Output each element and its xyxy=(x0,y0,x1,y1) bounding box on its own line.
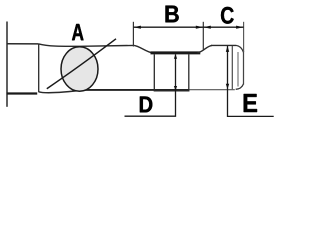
right body top edge xyxy=(211,44,236,46)
D dimension line with leader xyxy=(125,55,176,117)
taper bottom edge xyxy=(39,90,85,93)
B/C shared extension line xyxy=(202,22,204,50)
right end cap inner contour 1 xyxy=(231,46,233,89)
label C xyxy=(221,7,234,24)
right end cap outer face xyxy=(236,45,243,52)
B left extension line xyxy=(132,22,134,47)
slot bottom edge xyxy=(154,90,189,92)
saddle left dip xyxy=(134,45,153,53)
slot right vertical xyxy=(188,54,190,91)
E dimension line with leader xyxy=(228,46,274,117)
right end cap outer face vertical xyxy=(243,51,245,85)
label E xyxy=(244,94,257,112)
label B xyxy=(165,6,178,23)
taper top edge xyxy=(39,44,134,46)
left stub bottom edge xyxy=(7,92,38,94)
boss ellipse A xyxy=(61,47,98,91)
D down arrow xyxy=(174,86,177,91)
left stub right edge xyxy=(38,44,40,92)
D up arrow xyxy=(174,54,177,59)
B right arrow xyxy=(196,26,204,29)
right end cap inner contour 2 xyxy=(237,52,239,87)
C left arrow xyxy=(203,26,211,29)
E down arrow xyxy=(226,84,229,90)
B left arrow xyxy=(133,26,141,29)
right end cap bottom corner xyxy=(236,84,244,90)
E up arrow xyxy=(226,46,229,52)
B C dimension line xyxy=(133,26,243,28)
C right arrow xyxy=(236,26,244,29)
body bottom edge xyxy=(84,89,189,91)
body bottom edge right thin xyxy=(189,89,235,91)
label A xyxy=(72,24,84,40)
saddle right rise xyxy=(198,45,213,52)
left stub top edge xyxy=(7,43,39,45)
slot left vertical xyxy=(153,54,155,91)
slash through boss xyxy=(47,39,116,89)
saddle flat band xyxy=(151,51,201,54)
left stub left vertical xyxy=(6,22,8,107)
label D xyxy=(140,96,152,112)
C right extension line xyxy=(243,22,245,52)
